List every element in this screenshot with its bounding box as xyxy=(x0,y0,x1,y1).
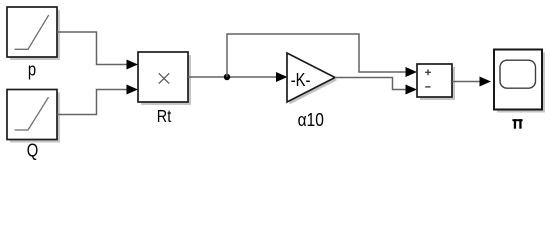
svg-text:α10: α10 xyxy=(298,110,324,131)
junction node dot xyxy=(224,74,230,80)
svg-text:p: p xyxy=(28,59,36,80)
label pi xyxy=(512,119,522,129)
wire from p to product input 1 xyxy=(57,32,138,70)
svg-text:Q: Q xyxy=(27,140,39,161)
ramp source block Q xyxy=(7,90,60,143)
gain block -K- xyxy=(287,53,338,105)
scope block xyxy=(494,50,545,113)
wire product output to gain input xyxy=(188,72,288,82)
feedforward wire from junction over gain to sum input 1 xyxy=(227,34,417,77)
sum block xyxy=(417,64,455,100)
wire from Q to product input 2 xyxy=(57,85,138,115)
svg-text:-K-: -K- xyxy=(291,69,311,90)
product block Rt xyxy=(138,52,191,105)
svg-text:Rt: Rt xyxy=(157,107,172,127)
wire gain output to sum input 2 xyxy=(335,78,417,95)
wire sum output to scope xyxy=(452,77,491,87)
ramp source block p xyxy=(7,7,60,60)
